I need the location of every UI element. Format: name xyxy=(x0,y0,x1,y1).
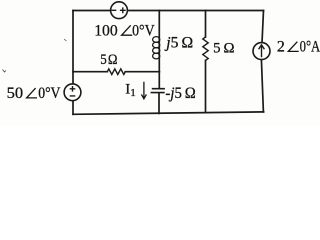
wire right rail xyxy=(261,11,263,112)
svg-text:0°A: 0°A xyxy=(300,39,320,56)
wire middle horizontal xyxy=(73,71,159,73)
svg-text:-j5 Ω: -j5 Ω xyxy=(165,85,195,102)
wire top rail xyxy=(73,10,264,12)
current source I2 2A (right) xyxy=(253,43,270,60)
svg-text:5 Ω: 5 Ω xyxy=(213,41,234,57)
wire bottom rail xyxy=(73,112,264,114)
wire capacitor branch xyxy=(158,72,160,114)
svg-text:2: 2 xyxy=(277,39,285,56)
svg-text:0°V: 0°V xyxy=(132,23,155,40)
wire resistor branch xyxy=(205,11,207,113)
resistor R1 5 ohm horizontal xyxy=(107,69,125,75)
svg-text:100: 100 xyxy=(94,23,118,40)
svg-text:j5 Ω: j5 Ω xyxy=(164,34,193,51)
wire inductor branch xyxy=(158,11,160,72)
resistor R2 5 ohm vertical xyxy=(203,37,208,60)
inductor L1 j5 ohm xyxy=(153,37,160,59)
svg-text:50: 50 xyxy=(7,85,24,102)
svg-text:5 Ω: 5 Ω xyxy=(100,52,117,68)
label 50&#8736;0&#176;V xyxy=(7,85,61,102)
label 2&#8736;0&#176;A xyxy=(277,39,320,56)
wire left rail xyxy=(72,11,74,115)
capacitor C1 -j5 ohm xyxy=(151,89,165,93)
current arrow I1 xyxy=(125,82,146,99)
voltage source V1 50V (left) xyxy=(64,84,81,101)
svg-text:0°V: 0°V xyxy=(38,85,61,102)
label 100&#8736;0&#176;V xyxy=(94,23,155,40)
voltage source V2 100V (top) xyxy=(111,2,128,19)
